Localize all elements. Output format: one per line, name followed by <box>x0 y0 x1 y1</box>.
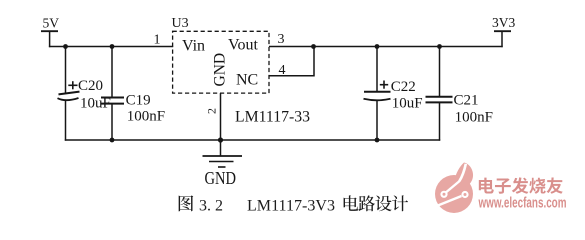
capacitor C22 10uF electrolytic <box>364 47 423 141</box>
wire ground rail <box>65 139 440 141</box>
node output junction C21 <box>437 44 442 49</box>
wire U3 GND pin drop <box>220 93 222 140</box>
watermark logo elecfans <box>435 163 473 214</box>
svg-text:100nF: 100nF <box>455 110 493 126</box>
svg-text:GND: GND <box>205 168 237 188</box>
capacitor C21 100nF <box>426 47 493 141</box>
wire 5V to rail <box>49 31 51 47</box>
node junction pin4 loop <box>311 44 316 49</box>
capacitor C20 10uF electrolytic <box>58 47 111 141</box>
caption 图 3.2 LM1117-3V3 电路设计 <box>179 195 408 214</box>
svg-text:1: 1 <box>154 33 161 48</box>
node ground junction U3 <box>218 137 223 142</box>
svg-text:3. 2: 3. 2 <box>199 198 223 215</box>
svg-text:Vin: Vin <box>182 38 205 55</box>
op U3 regulator body dashed <box>173 31 269 93</box>
svg-text:C19: C19 <box>126 93 151 109</box>
power symbol 5V <box>41 16 59 32</box>
node ground junction C19 <box>110 138 115 143</box>
svg-text:5V: 5V <box>43 16 60 31</box>
svg-text:C22: C22 <box>391 79 416 95</box>
wire 3V3 drop <box>501 31 503 47</box>
svg-text:LM1117-33: LM1117-33 <box>235 109 310 126</box>
svg-text:NC: NC <box>236 72 258 89</box>
ground symbol <box>203 140 243 167</box>
wire input rail <box>49 46 173 48</box>
svg-text:C20: C20 <box>78 78 103 94</box>
svg-text:2: 2 <box>205 108 219 114</box>
svg-text:www.elecfans.com: www.elecfans.com <box>478 195 567 212</box>
svg-text:Vout: Vout <box>228 37 258 54</box>
svg-text:C21: C21 <box>454 93 479 109</box>
svg-text:LM1117-3V3: LM1117-3V3 <box>247 198 335 215</box>
svg-text:3V3: 3V3 <box>492 15 515 30</box>
svg-text:100nF: 100nF <box>127 109 165 125</box>
node input junction C20 <box>63 44 68 49</box>
wire output rail pin3 <box>269 46 503 48</box>
capacitor C19 100nF <box>101 47 165 141</box>
svg-text:GND: GND <box>212 53 229 87</box>
svg-text:10uF: 10uF <box>392 96 423 112</box>
power symbol 3V3 <box>492 15 515 31</box>
node ground junction C22 <box>375 138 380 143</box>
svg-text:U3: U3 <box>172 16 189 31</box>
wire pin4 NC loop <box>269 47 314 76</box>
node output junction C22 <box>375 44 380 49</box>
watermark text 电子发烧友 <box>479 177 563 193</box>
node input junction C19 <box>110 44 115 49</box>
svg-text:3: 3 <box>278 32 285 47</box>
